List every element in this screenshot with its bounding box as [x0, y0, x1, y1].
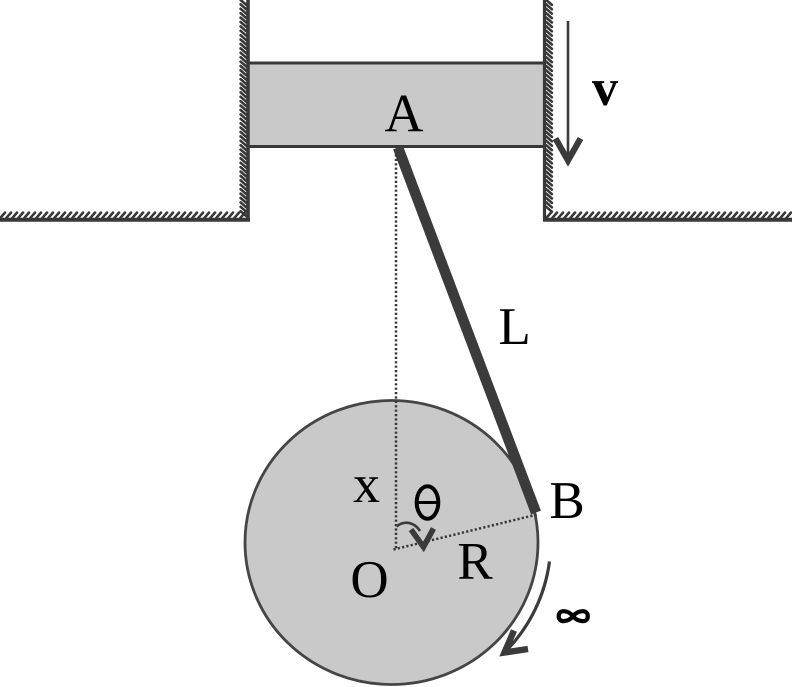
omega arc arrow [506, 562, 550, 652]
velocity arrow v (down) [567, 21, 570, 155]
crank disk (circle, center O) [245, 401, 538, 685]
right wall line [543, 0, 546, 220]
theta arc arrow [397, 523, 421, 531]
svg-text:v: v [592, 60, 618, 117]
right wall hatching [546, 0, 552, 212]
connecting rod L (A to B) [398, 148, 536, 513]
right ground line [543, 218, 792, 222]
left wall line [246, 0, 250, 220]
piston A (gray slider block) [249, 63, 543, 147]
svg-text:A: A [385, 84, 424, 144]
dotted radius line O to B [394, 515, 538, 550]
left ground line [0, 218, 250, 222]
svg-text:x: x [353, 454, 380, 514]
svg-text:B: B [549, 472, 584, 530]
svg-text:L: L [498, 298, 530, 356]
piston bottom edge [247, 145, 545, 148]
velocity arrowhead [556, 139, 581, 161]
piston top edge [247, 62, 545, 65]
omega arrowhead [505, 631, 529, 653]
left ground hatching [0, 213, 245, 219]
right ground hatching [546, 213, 791, 219]
label omega (infinity symbol) [559, 611, 588, 621]
dotted vertical line x (from A down to O) [395, 150, 398, 549]
left wall hatching [241, 0, 247, 216]
svg-text:R: R [457, 533, 493, 591]
theta arrowhead [411, 529, 434, 548]
svg-text:O: O [350, 551, 388, 609]
label theta [417, 486, 439, 518]
